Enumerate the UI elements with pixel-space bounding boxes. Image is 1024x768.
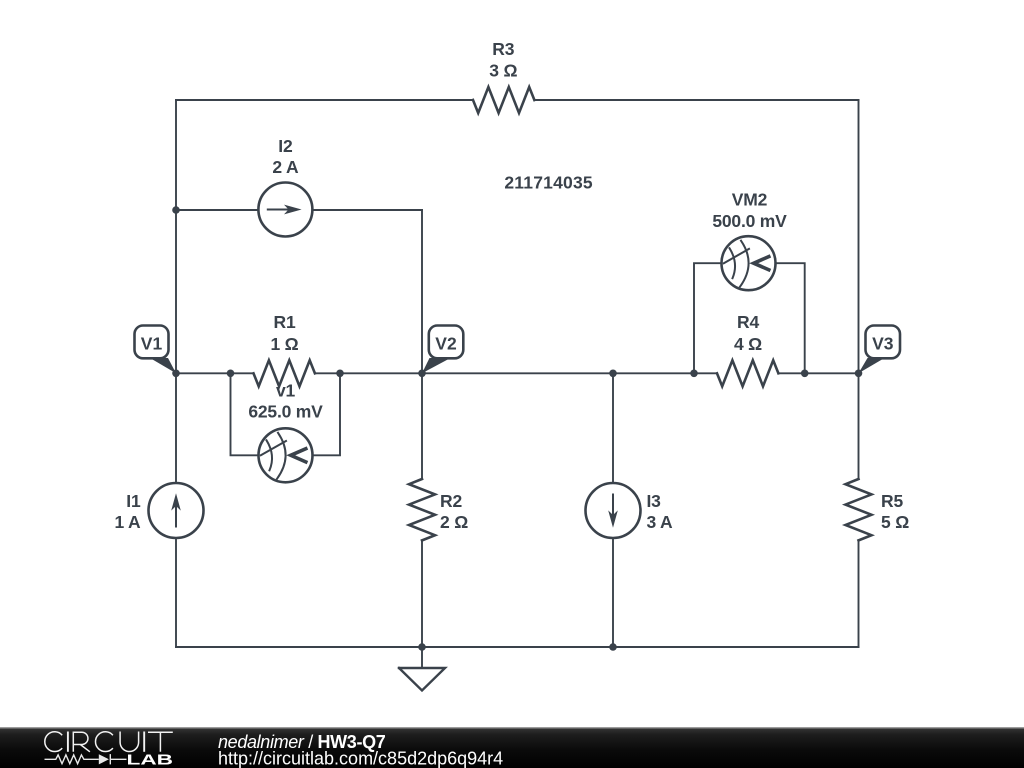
svg-text:V1: V1 <box>141 334 163 354</box>
node junction dot ground <box>418 643 426 651</box>
wire middle R4 to V3 <box>778 372 858 374</box>
node junction dot I3 tap <box>609 370 617 378</box>
voltmeter VM2 <box>722 236 776 290</box>
svg-text:3 Ω: 3 Ω <box>489 60 517 80</box>
svg-text:500.0 mV: 500.0 mV <box>712 211 787 231</box>
svg-text:R4: R4 <box>737 312 759 332</box>
node V3 junction dot <box>855 370 863 378</box>
svg-text:R5: R5 <box>881 491 903 511</box>
wire right vertical top <box>858 100 860 373</box>
svg-text:LAB: LAB <box>127 752 174 768</box>
wire R5 branch top <box>858 373 860 479</box>
wire VM2 left leg <box>694 263 722 373</box>
wire I2 branch left <box>176 209 258 211</box>
svg-text:4 Ω: 4 Ω <box>734 334 762 354</box>
svg-text:211714035: 211714035 <box>504 173 592 193</box>
wire voltmeter v1 right leg <box>313 373 341 455</box>
node junction dot I3 bottom <box>609 643 617 651</box>
logo CIRCUIT letters <box>45 732 173 752</box>
wire I3 branch bottom <box>612 538 614 647</box>
ground <box>421 647 423 668</box>
node junction dot v1 right tap <box>336 370 344 378</box>
svg-text:2 Ω: 2 Ω <box>440 512 468 532</box>
wire R2 branch bottom <box>421 540 423 647</box>
node junction dot VM2 right tap <box>801 370 809 378</box>
resistor R2 <box>409 479 435 540</box>
wire R5 branch bottom <box>858 540 860 647</box>
svg-text:625.0 mV: 625.0 mV <box>248 401 323 421</box>
current source I3 <box>586 483 641 538</box>
svg-text:2 A: 2 A <box>272 157 299 177</box>
svg-text:3 A: 3 A <box>647 512 674 532</box>
voltmeter v1 <box>259 428 313 482</box>
svg-text:R2: R2 <box>440 491 462 511</box>
svg-text:5 Ω: 5 Ω <box>881 512 909 532</box>
svg-text:1 A: 1 A <box>115 512 142 532</box>
wire left vertical bottom <box>175 539 177 648</box>
wire left vertical top <box>175 100 177 483</box>
node junction dot left I2 tap <box>172 206 180 214</box>
wire I2 branch down to V2 <box>421 210 423 373</box>
wire I2 branch right <box>312 209 422 211</box>
current source I1 <box>149 483 204 538</box>
svg-text:v1: v1 <box>276 380 296 400</box>
resistor R5 <box>846 479 872 540</box>
svg-text:http://circuitlab.com/c85d2dp6: http://circuitlab.com/c85d2dp6q94r4 <box>218 749 503 768</box>
node V1 junction dot <box>172 370 180 378</box>
svg-text:R3: R3 <box>492 39 514 59</box>
svg-text:V3: V3 <box>872 334 894 354</box>
svg-text:VM2: VM2 <box>732 190 768 210</box>
svg-text:R1: R1 <box>274 312 296 332</box>
svg-text:V2: V2 <box>435 334 457 354</box>
logo resistor-diode doodle <box>45 754 127 764</box>
resistor R4 <box>717 360 778 386</box>
node flag V2 <box>422 326 463 374</box>
node flag V3 <box>859 326 901 374</box>
svg-text:I1: I1 <box>126 491 141 511</box>
wire I3 branch top <box>612 373 614 483</box>
wire middle R1 to R4 <box>315 372 717 374</box>
wire middle V1 to R1 <box>176 372 254 374</box>
svg-text:I3: I3 <box>647 491 662 511</box>
wire top horizontal left of R3 <box>176 99 473 101</box>
svg-text:I2: I2 <box>278 136 293 156</box>
current source I2 <box>258 183 312 237</box>
wire R2 branch top <box>421 373 423 479</box>
node V2 junction dot <box>418 370 426 378</box>
resistor R3 <box>473 87 534 113</box>
svg-text:1 Ω: 1 Ω <box>270 334 298 354</box>
node junction dot v1 left tap <box>227 370 235 378</box>
footer bar <box>0 727 1024 768</box>
wire voltmeter v1 left leg <box>231 373 259 455</box>
node flag V1 <box>135 326 177 374</box>
node junction dot VM2 left tap <box>690 370 698 378</box>
resistor R1 <box>254 360 315 386</box>
wire bottom horizontal <box>176 646 859 648</box>
wire top horizontal right of R3 <box>534 99 858 101</box>
wire VM2 right leg <box>776 263 805 373</box>
